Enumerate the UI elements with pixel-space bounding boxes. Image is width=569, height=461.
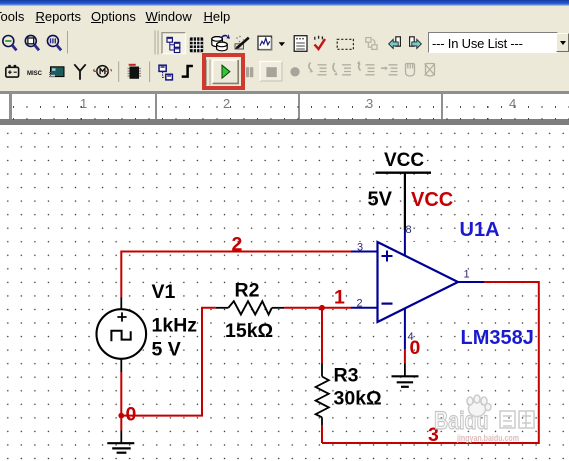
svg-text:3: 3 [357, 242, 363, 254]
svg-text:30kΩ: 30kΩ [334, 388, 382, 410]
watermark baidu jingyan [434, 395, 534, 444]
svg-text:8: 8 [406, 224, 412, 236]
advanced IC icon [128, 65, 142, 79]
net label 0 [126, 404, 137, 426]
ground (op-amp) [392, 364, 419, 387]
grayed breakpoint-hand icon [425, 64, 436, 77]
toolbar icons [0, 0, 569, 92]
grayed step-out icon [357, 61, 375, 75]
svg-text:R2: R2 [235, 280, 260, 302]
stop button [260, 61, 282, 81]
svg-text:LM358J: LM358J [461, 327, 534, 349]
svg-text:R3: R3 [334, 365, 359, 387]
grapher icon [258, 36, 272, 50]
battery / basic parts icon [6, 66, 19, 77]
bus icon [182, 66, 193, 77]
menu bar [0, 6, 569, 28]
grayed pause-hand icon [406, 63, 415, 76]
net label 0 at pin 4 [410, 337, 421, 359]
grayed run-to-cursor icon [381, 65, 398, 75]
op-amp U1A [378, 242, 459, 322]
svg-text:5V: 5V [368, 189, 393, 211]
zoom-page magnifier [47, 35, 61, 50]
net label VCC (red) [411, 189, 453, 211]
motor icon [94, 66, 112, 77]
wire node 1 down to R3 [321, 308, 323, 364]
op-amp U1A label [460, 219, 500, 241]
svg-text:2: 2 [232, 234, 243, 256]
resistor R2 [216, 301, 284, 314]
svg-text:0: 0 [126, 404, 137, 426]
wire pin4 to ground [404, 349, 406, 364]
wire net 3 (output loop) [322, 282, 539, 443]
back arrow icon [389, 37, 401, 49]
pin 1 output [458, 269, 484, 283]
value 15kΩ [225, 320, 273, 342]
label V1 [152, 281, 176, 303]
combo box [428, 32, 558, 53]
svg-text:1: 1 [334, 287, 345, 309]
grayed hierarchy icon [366, 38, 377, 50]
node 1 junction [319, 305, 325, 311]
wire R3 bottom to net 3 [321, 425, 323, 443]
wire net 2 (opamp + input to V1) [121, 252, 351, 298]
op-amp part label LM358J [461, 327, 534, 349]
forward arrow icon [410, 37, 422, 49]
svg-text:5 V: 5 V [152, 339, 181, 361]
pin 4 [405, 308, 414, 349]
svg-text:V1: V1 [152, 281, 176, 303]
pcb card icon [49, 67, 64, 77]
MISC parts icon [27, 70, 42, 77]
node 0 junction [118, 413, 124, 419]
source V1 [97, 298, 147, 373]
design toolbox button (pressed) [162, 33, 186, 54]
net label 1 [334, 287, 345, 309]
net label 2 [232, 234, 243, 256]
op-amp body background [352, 242, 458, 322]
power symbol VCC [376, 150, 432, 230]
svg-text:U1A: U1A [460, 219, 500, 241]
selection rectangle icon [337, 39, 353, 49]
zoom-out magnifier [3, 36, 17, 51]
ERC check icon [315, 36, 326, 49]
value 5 V [152, 339, 181, 361]
run/play button [213, 60, 239, 83]
grayed step-over icon [333, 63, 351, 75]
toolbar row 2 [0, 28, 569, 89]
label R2 [235, 280, 260, 302]
net label 3 [428, 424, 439, 446]
resistor R3 [316, 364, 329, 426]
svg-text:15kΩ: 15kΩ [225, 320, 273, 342]
pause icon (partial) [246, 67, 253, 77]
component wizard icon [235, 36, 249, 50]
postprocessor icon [294, 36, 307, 52]
antenna icon [74, 64, 85, 80]
svg-text:2: 2 [357, 298, 363, 310]
value label 5V [368, 189, 393, 211]
canvas [0, 125, 569, 461]
wire R2 to node 1 to opamp - input [284, 307, 351, 309]
ruler [0, 89, 569, 125]
svg-text:1: 1 [464, 269, 470, 281]
svg-text:jingyan.baidu.com: jingyan.baidu.com [456, 433, 519, 444]
value 1kHz [152, 315, 198, 337]
toolbar separators [68, 31, 211, 86]
ground (V1) [107, 431, 134, 453]
grayed stop-sign icon [290, 67, 299, 76]
zoom-window magnifier [25, 35, 39, 50]
hierarchical block icon [159, 65, 172, 80]
wire V1 to node 0 and to R2 [121, 308, 216, 416]
database manager icon [212, 34, 230, 51]
svg-text:0: 0 [410, 337, 421, 359]
pin 3 [351, 242, 378, 254]
wire node0 down to ground [120, 416, 122, 431]
window title bar sliver [0, 0, 569, 6]
grapher dropdown arrow [279, 42, 285, 46]
label R3 [334, 365, 359, 387]
grayed step-into icon [309, 63, 327, 75]
spreadsheet grid icon [190, 37, 203, 52]
svg-text:VCC: VCC [384, 150, 424, 171]
svg-text:1kHz: 1kHz [152, 315, 198, 337]
red highlight box [202, 53, 245, 90]
pin 8 [405, 224, 412, 256]
pin 2 [351, 298, 378, 310]
value 30kΩ [334, 388, 382, 410]
svg-text:VCC: VCC [411, 189, 453, 211]
